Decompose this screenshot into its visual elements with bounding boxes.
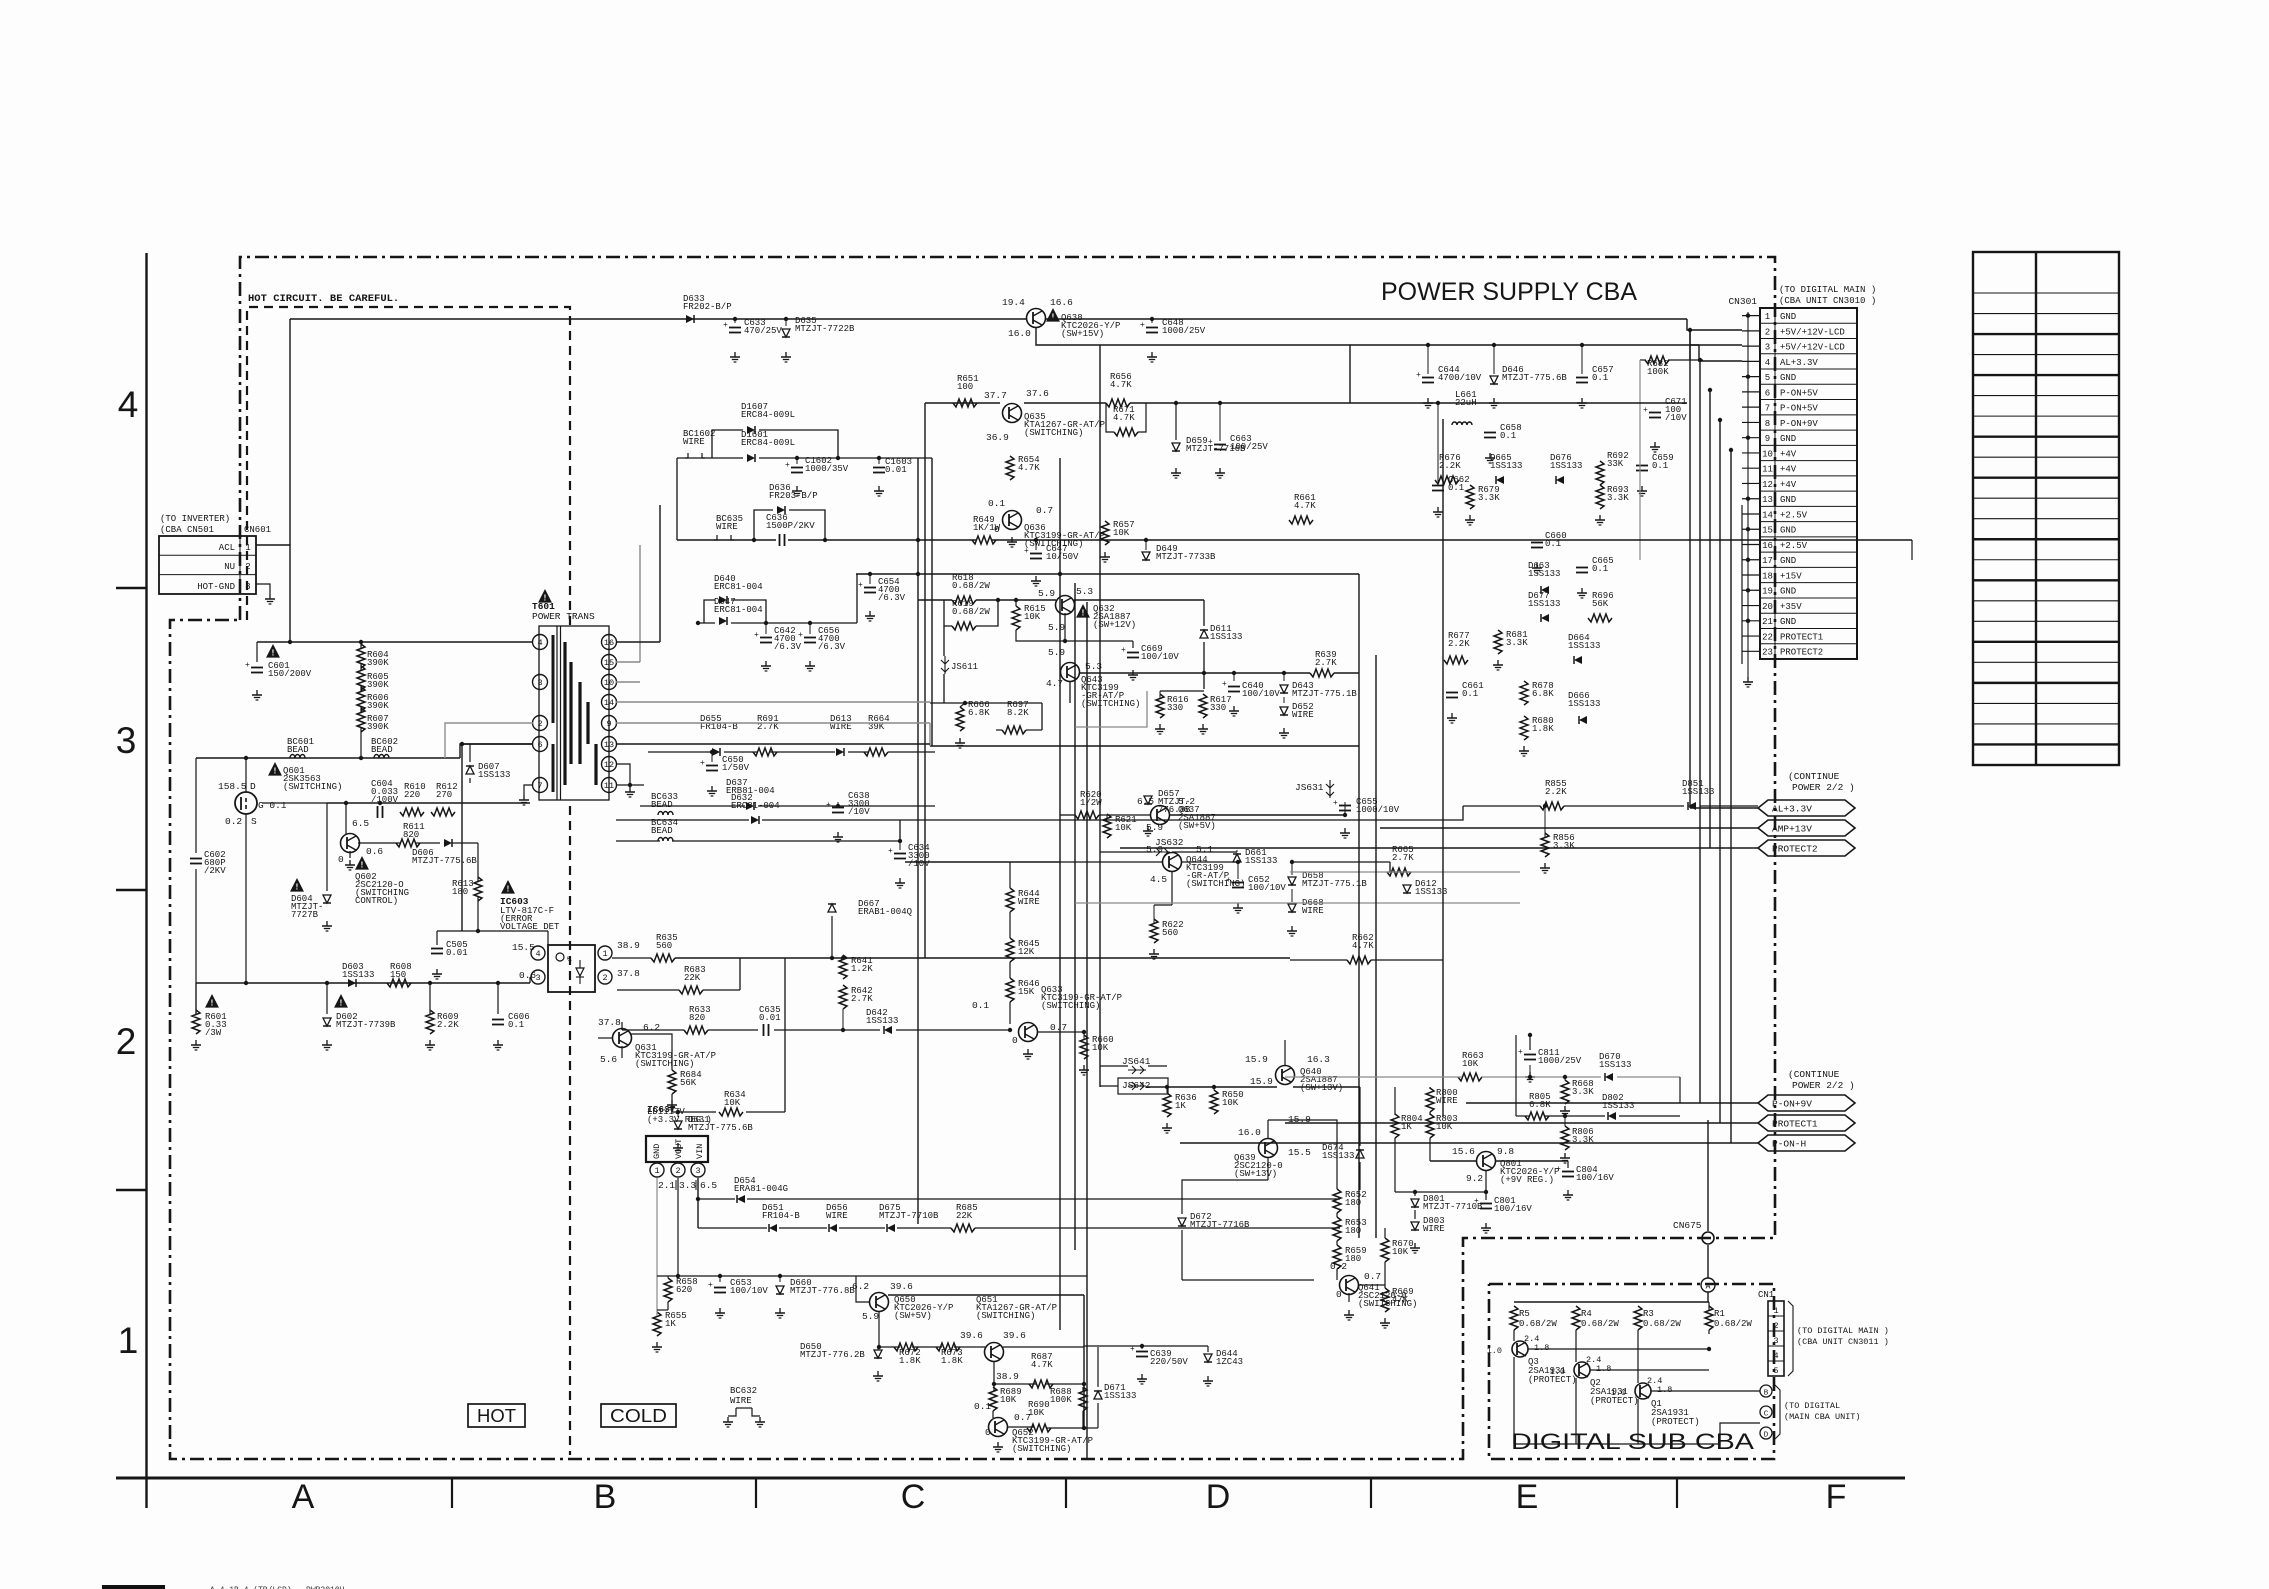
diode D652 <box>1280 707 1288 715</box>
gate drive wire <box>289 545 291 642</box>
svg-text:0.1: 0.1 <box>1652 461 1668 471</box>
wire Q801 row <box>1430 1160 1477 1162</box>
svg-text:3: 3 <box>116 720 137 761</box>
connector C <box>1760 1406 1772 1418</box>
svg-text:+: + <box>1518 1048 1523 1057</box>
svg-text:(SWITCHING): (SWITCHING) <box>1012 1444 1071 1454</box>
svg-text:+4V: +4V <box>1780 480 1797 490</box>
CN301 ground <box>1747 312 1749 677</box>
svg-text:+: + <box>1024 547 1029 556</box>
svg-text:+: + <box>798 631 803 640</box>
svg-text:8.2K: 8.2K <box>1007 708 1029 718</box>
svg-text:0.6: 0.6 <box>366 846 383 857</box>
wire x1285 vertical Q640 <box>1284 1040 1286 1065</box>
svg-text:3: 3 <box>535 973 540 983</box>
svg-text:5.9: 5.9 <box>1038 588 1055 599</box>
svg-text:D: D <box>1764 1432 1769 1440</box>
svg-text:37.6: 37.6 <box>1026 388 1049 399</box>
capacitor C642 <box>760 637 772 639</box>
wire Q641 <box>1358 1284 1385 1286</box>
capacitor C804 <box>1562 1171 1574 1173</box>
wire R662 row <box>1290 959 1347 961</box>
CN301 gnd dots <box>1746 313 1750 317</box>
diode D503 <box>348 979 356 987</box>
svg-text:39.6: 39.6 <box>960 1330 983 1341</box>
svg-text:1SS133: 1SS133 <box>1568 641 1600 651</box>
wire flag AL+3.3V feed <box>900 806 1463 820</box>
svg-text:PROTECT1: PROTECT1 <box>1772 1118 1818 1129</box>
svg-text:COLD: COLD <box>610 1406 667 1426</box>
svg-text:12K: 12K <box>1018 947 1035 957</box>
wire CN601 pin1 to primary <box>256 545 290 642</box>
svg-text:NU: NU <box>224 562 235 572</box>
connector CN301 table <box>1760 308 1857 659</box>
wire y903 gray return <box>1075 902 1520 904</box>
svg-text:1SS133: 1SS133 <box>1245 856 1277 866</box>
svg-text:DIGITAL SUB CBA: DIGITAL SUB CBA <box>1511 1429 1754 1454</box>
transistor Q631 <box>613 1029 632 1048</box>
svg-text:100/10V: 100/10V <box>730 1286 768 1296</box>
wire R644 column x1010 <box>1009 888 1011 891</box>
capacitor C602 <box>190 858 202 860</box>
diode D801 <box>1411 1199 1419 1207</box>
svg-text:(CBA UNIT CN3011 ): (CBA UNIT CN3011 ) <box>1797 1337 1889 1347</box>
svg-text:+: + <box>1222 680 1227 689</box>
svg-text:4: 4 <box>1773 1351 1778 1361</box>
svg-text:1SS133: 1SS133 <box>1528 569 1560 579</box>
svg-text:2.2K: 2.2K <box>1545 787 1567 797</box>
svg-text:2.2K: 2.2K <box>1448 639 1470 649</box>
svg-text:7727B: 7727B <box>291 910 319 920</box>
resistor R5 <box>1510 1306 1518 1330</box>
svg-text:A: A <box>1706 1283 1711 1292</box>
capacitor C644 <box>1422 377 1434 379</box>
diode D672 <box>1178 1218 1186 1226</box>
svg-text:(+9V REG.): (+9V REG.) <box>1500 1175 1554 1185</box>
wire CN675 column <box>1707 1120 1709 1231</box>
svg-text:BEAD: BEAD <box>651 826 673 836</box>
svg-text:22: 22 <box>1762 632 1773 642</box>
svg-text:ERA81-004G: ERA81-004G <box>734 1184 788 1194</box>
vertical x1084 <box>1083 1295 1085 1428</box>
wire Q652 row <box>1007 1426 1034 1428</box>
svg-text:270: 270 <box>436 790 452 800</box>
svg-text:1.8K: 1.8K <box>899 1356 921 1366</box>
svg-text:P-ON-H: P-ON-H <box>1772 1138 1806 1149</box>
svg-text:0.01: 0.01 <box>885 465 907 475</box>
svg-text:(SW+13V): (SW+13V) <box>1300 1083 1343 1093</box>
CN301 pin stubs <box>1742 315 1760 317</box>
diode D660 <box>776 1286 784 1294</box>
svg-text:R5: R5 <box>1519 1309 1530 1319</box>
connector D <box>1760 1427 1772 1439</box>
svg-text:+: + <box>1121 646 1126 655</box>
svg-text:4.7K: 4.7K <box>1294 501 1316 511</box>
svg-text:330: 330 <box>1210 703 1226 713</box>
wire y1347 row <box>879 1346 900 1348</box>
diode D602 <box>334 994 348 1008</box>
svg-text:1: 1 <box>118 1320 139 1361</box>
wire R663 row y1077 <box>1285 1076 1462 1078</box>
svg-text:820: 820 <box>689 1013 705 1023</box>
svg-text:36.9: 36.9 <box>986 432 1009 443</box>
svg-text:(CONTINUE: (CONTINUE <box>1788 771 1840 782</box>
svg-text:2: 2 <box>675 1166 680 1176</box>
wire Q637 row y815 <box>1060 814 1075 816</box>
wire x1620 vertical <box>1619 806 1621 1058</box>
svg-text:37.7: 37.7 <box>984 390 1007 401</box>
harness joins <box>1690 807 1758 809</box>
svg-text:WIRE: WIRE <box>1292 710 1314 720</box>
svg-text:(PROTECT): (PROTECT) <box>1651 1417 1700 1427</box>
svg-text:820: 820 <box>403 830 419 840</box>
svg-text:0.1: 0.1 <box>1500 431 1516 441</box>
svg-text:WIRE: WIRE <box>730 1396 752 1406</box>
wire Q638 base riser <box>1036 328 1350 403</box>
transistor Q2 <box>1574 1362 1590 1378</box>
svg-text:1.8K: 1.8K <box>1532 724 1554 734</box>
svg-text:MTZJT-775.1B: MTZJT-775.1B <box>1292 689 1357 699</box>
svg-text:JS641: JS641 <box>1122 1056 1151 1067</box>
capacitor C655 <box>1339 805 1351 807</box>
svg-text:(SWITCHING): (SWITCHING) <box>976 1311 1035 1321</box>
svg-text:390K: 390K <box>367 722 389 732</box>
wire flag AMP+13V <box>1380 827 1758 829</box>
capacitor C663 <box>1214 444 1226 446</box>
svg-text:+: + <box>1140 321 1145 330</box>
svg-text:(TO INVERTER): (TO INVERTER) <box>160 514 230 524</box>
svg-text:GND: GND <box>1780 373 1796 383</box>
svg-text:6.5: 6.5 <box>352 818 369 829</box>
svg-text:5.3: 5.3 <box>1076 586 1093 597</box>
diode D607 <box>466 766 474 774</box>
long vertical x1075 <box>1074 583 1076 1250</box>
svg-text:(SWITCHING): (SWITCHING) <box>635 1059 694 1069</box>
svg-text:470/25V: 470/25V <box>744 326 782 336</box>
svg-text:5.9: 5.9 <box>862 1311 879 1322</box>
svg-text:+: + <box>1416 371 1421 380</box>
svg-text:0.68/2W: 0.68/2W <box>1519 1319 1557 1329</box>
transistor Q650 <box>870 1293 889 1312</box>
svg-text:100/16V: 100/16V <box>1494 1204 1532 1214</box>
svg-text:↯: ↯ <box>566 956 573 965</box>
svg-text:1K/1W: 1K/1W <box>973 523 1001 533</box>
svg-text:16.0: 16.0 <box>1238 1127 1261 1138</box>
svg-text:1SS133: 1SS133 <box>1210 632 1242 642</box>
svg-text:GND: GND <box>652 1144 662 1159</box>
wire y862 rail <box>905 861 1060 863</box>
svg-text:2: 2 <box>116 1021 137 1062</box>
svg-text:MTZJT-775.6B: MTZJT-775.6B <box>412 856 477 866</box>
svg-text:17: 17 <box>1762 556 1773 566</box>
svg-text:6.5: 6.5 <box>700 1180 717 1191</box>
svg-text:2: 2 <box>1773 1321 1778 1331</box>
svg-text:3: 3 <box>695 1166 700 1176</box>
svg-text:C: C <box>901 1478 926 1516</box>
wire D651 row y1228 <box>698 1227 767 1229</box>
svg-text:S: S <box>251 816 257 827</box>
svg-text:0.1: 0.1 <box>974 1401 991 1412</box>
long vertical x1100 <box>1099 345 1101 1087</box>
svg-text:1.8K: 1.8K <box>941 1356 963 1366</box>
diode D668 <box>1288 904 1296 912</box>
svg-text:10K: 10K <box>1028 1408 1045 1418</box>
resistor R3 <box>1634 1306 1642 1330</box>
svg-text:CN301: CN301 <box>1728 296 1757 307</box>
svg-text:AL+3.3V: AL+3.3V <box>1780 358 1818 368</box>
svg-text:MTZJT-7733B: MTZJT-7733B <box>1156 552 1216 562</box>
wire R800 R803 column <box>1429 1087 1431 1089</box>
svg-text:15.5: 15.5 <box>512 942 535 953</box>
svg-text:1: 1 <box>1765 312 1770 322</box>
wire pin2-3 feed <box>1687 319 1742 330</box>
svg-text:1SS133: 1SS133 <box>1528 599 1560 609</box>
svg-text:(SW+15V): (SW+15V) <box>1061 329 1104 339</box>
wire D674 column <box>1359 1138 1361 1146</box>
wire pin9 gray <box>616 722 930 724</box>
svg-text:1000/25V: 1000/25V <box>1162 326 1206 336</box>
svg-text:MTZJT-775.6B: MTZJT-775.6B <box>1502 373 1567 383</box>
svg-text:1SS133: 1SS133 <box>866 1016 898 1026</box>
svg-text:6.8K: 6.8K <box>968 708 990 718</box>
wire y574 rail <box>856 573 1359 575</box>
svg-text:+: + <box>1556 1165 1561 1174</box>
svg-text:9: 9 <box>1765 434 1770 444</box>
long vertical x1087 <box>1086 602 1088 1460</box>
wire pin10 <box>616 681 640 683</box>
wire Q631 <box>621 1022 623 1030</box>
svg-text:+: + <box>1643 406 1648 415</box>
svg-text:0.68/2W: 0.68/2W <box>1643 1319 1681 1329</box>
svg-text:1.8: 1.8 <box>1534 1343 1549 1353</box>
wire JS641 row <box>1100 1065 1128 1067</box>
svg-text:MTZJT-7710B: MTZJT-7710B <box>879 1211 939 1221</box>
transistor Q801 <box>1477 1152 1496 1171</box>
wire CN675 to A <box>1707 1245 1709 1278</box>
svg-text:ERC81-004: ERC81-004 <box>714 605 763 615</box>
svg-text:+: + <box>245 661 250 670</box>
gray wire pin15 <box>616 661 640 663</box>
svg-text:(TO DIGITAL: (TO DIGITAL <box>1784 1401 1840 1411</box>
wire pin14 <box>616 701 930 703</box>
wire x1463 vertical <box>1462 806 1464 1103</box>
svg-text:0.7: 0.7 <box>1050 1022 1067 1033</box>
svg-text:15.5: 15.5 <box>1288 1147 1311 1158</box>
svg-text:15.9: 15.9 <box>1250 1076 1273 1087</box>
svg-text:0.1: 0.1 <box>1592 373 1608 383</box>
svg-text:0.7: 0.7 <box>1364 1271 1381 1282</box>
svg-text:0.68/2W: 0.68/2W <box>1714 1319 1752 1329</box>
svg-text:0.1: 0.1 <box>972 1000 989 1011</box>
resistor R601 <box>205 994 219 1008</box>
wire y345 rail to pin4 <box>1350 344 1699 346</box>
net flag AMP+13V <box>1758 820 1855 836</box>
svg-text:4.5: 4.5 <box>1150 874 1167 885</box>
svg-text:FR104-B: FR104-B <box>762 1211 800 1221</box>
svg-text:10: 10 <box>1762 449 1773 459</box>
svg-text:1.0: 1.0 <box>1487 1346 1502 1356</box>
opto IC603 <box>501 880 515 894</box>
svg-text:7: 7 <box>537 781 542 791</box>
wire y403 rail <box>925 402 1000 404</box>
wire JS632 row <box>1100 851 1152 853</box>
svg-text:R3: R3 <box>1643 1309 1654 1319</box>
resistor R606 <box>357 687 365 711</box>
capacitor C640 <box>1228 686 1240 688</box>
svg-text:33K: 33K <box>1607 459 1624 469</box>
capacitor C652 <box>1232 882 1244 884</box>
svg-text:+35V: +35V <box>1780 602 1802 612</box>
wire y703 box <box>930 702 1042 704</box>
svg-text:15.6: 15.6 <box>1452 1146 1475 1157</box>
svg-text:MTZJT-775.1B: MTZJT-775.1B <box>1302 879 1367 889</box>
transformer pin11-12 ground <box>616 764 630 785</box>
wire flag PROTECT1 feed <box>1285 1122 1720 1124</box>
svg-text:3: 3 <box>537 678 542 688</box>
svg-text:WIRE: WIRE <box>826 1211 848 1221</box>
wire D611 column <box>1203 642 1205 689</box>
svg-text:/10V: /10V <box>1665 413 1687 423</box>
svg-text:1: 1 <box>602 949 607 959</box>
transistor Q641 <box>1340 1276 1359 1295</box>
svg-text:0: 0 <box>1012 1035 1018 1046</box>
wire D636 loop <box>754 510 773 540</box>
transformer T601 warning <box>538 589 552 603</box>
svg-text:1SS133: 1SS133 <box>1490 461 1522 471</box>
svg-text:100K: 100K <box>1050 1395 1072 1405</box>
svg-text:100/25V: 100/25V <box>1230 442 1268 452</box>
svg-text:14: 14 <box>604 698 614 708</box>
svg-text:POWER 2/2 ): POWER 2/2 ) <box>1792 782 1855 793</box>
svg-text:8: 8 <box>1765 419 1770 429</box>
svg-text:1: 1 <box>245 543 250 553</box>
svg-text:3: 3 <box>1765 343 1770 353</box>
diode D667 <box>828 904 836 912</box>
svg-text:+: + <box>1474 1197 1479 1206</box>
wire flag PROTECT2 <box>1120 847 1758 849</box>
svg-text:10K: 10K <box>1024 612 1041 622</box>
svg-text:10K: 10K <box>1000 1395 1017 1405</box>
svg-text:23: 23 <box>1762 648 1773 658</box>
svg-text:16: 16 <box>604 638 614 648</box>
svg-text:100/10V: 100/10V <box>1248 883 1286 893</box>
wire pin13 row <box>616 743 930 745</box>
diode D649 <box>1142 552 1150 560</box>
transistor Q639 <box>1259 1139 1278 1158</box>
svg-text:2.7K: 2.7K <box>851 994 873 1004</box>
svg-text:1.0: 1.0 <box>1550 1367 1565 1377</box>
svg-text:0: 0 <box>1336 1289 1342 1300</box>
transistor Q637 <box>1151 806 1170 825</box>
svg-text:+: + <box>1226 876 1231 885</box>
wire pin12 stub <box>616 763 630 765</box>
wire right verticals x1359 x1376 <box>1358 574 1360 1238</box>
digital sub wires <box>1513 1330 1515 1341</box>
svg-text:22K: 22K <box>956 1211 973 1221</box>
svg-text:2.7K: 2.7K <box>1315 658 1337 668</box>
wire BC633 BC634 row <box>616 819 749 821</box>
svg-text:B: B <box>1764 1390 1769 1398</box>
svg-text:(SWITCHING): (SWITCHING) <box>283 782 342 792</box>
wire vertical x925 <box>924 403 926 958</box>
svg-text:56K: 56K <box>680 1078 697 1088</box>
wire Q650 row <box>888 1294 1084 1296</box>
svg-text:19: 19 <box>1762 587 1773 597</box>
svg-text:4: 4 <box>535 949 540 959</box>
connector CN601 table <box>159 536 256 594</box>
svg-text:10K: 10K <box>1115 823 1132 833</box>
svg-text:POWER 2/2 ): POWER 2/2 ) <box>1792 1080 1855 1091</box>
resistor R604 <box>357 644 365 668</box>
svg-text:10K: 10K <box>1462 1059 1479 1069</box>
svg-text:(CBA UNIT CN3010 ): (CBA UNIT CN3010 ) <box>1779 296 1876 306</box>
wire top rail y319 <box>290 318 1026 320</box>
svg-text:!: ! <box>340 999 343 1008</box>
svg-text:/6.3V: /6.3V <box>878 593 906 603</box>
svg-text:+: + <box>858 581 863 590</box>
svg-text:13: 13 <box>604 740 614 750</box>
svg-text:1SS133: 1SS133 <box>1599 1060 1631 1070</box>
svg-text:6.8K: 6.8K <box>1532 689 1554 699</box>
svg-text:1SS133: 1SS133 <box>1550 461 1582 471</box>
svg-text:1SS133: 1SS133 <box>1568 699 1600 709</box>
svg-text:CN675: CN675 <box>1673 1220 1702 1231</box>
svg-text:390K: 390K <box>367 658 389 668</box>
svg-text:3.3K: 3.3K <box>1607 493 1629 503</box>
diode D659 <box>1172 443 1180 451</box>
capacitor C654 <box>864 587 876 589</box>
resistor R607 <box>357 708 365 732</box>
svg-text:10K: 10K <box>1113 528 1130 538</box>
svg-text:0.68/2W: 0.68/2W <box>952 581 990 591</box>
svg-text:GND: GND <box>1780 617 1796 627</box>
capacitor C669 <box>1127 652 1139 654</box>
svg-text:/10V: /10V <box>848 807 870 817</box>
svg-text:JS631: JS631 <box>1295 782 1324 793</box>
wire C639 D644 row <box>1084 1345 1208 1347</box>
transistor Q643 <box>1061 663 1080 682</box>
svg-text:2: 2 <box>602 973 607 983</box>
net flag P-ON-H <box>1758 1135 1855 1151</box>
svg-text:3.3: 3.3 <box>679 1180 696 1191</box>
svg-text:9.2: 9.2 <box>1466 1173 1483 1184</box>
svg-text:390K: 390K <box>367 680 389 690</box>
svg-text:10K: 10K <box>1222 1098 1239 1108</box>
net flag AL+3.3V <box>1758 800 1855 816</box>
svg-text:38.9: 38.9 <box>617 940 640 951</box>
svg-text:(SWITCHING): (SWITCHING) <box>1081 699 1140 709</box>
capacitor C647 <box>1030 553 1042 555</box>
svg-text:100: 100 <box>957 382 973 392</box>
svg-text:B: B <box>594 1478 617 1516</box>
svg-text:6: 6 <box>537 740 542 750</box>
svg-text:9: 9 <box>606 719 611 729</box>
svg-text:(MAIN CBA UNIT): (MAIN CBA UNIT) <box>1784 1412 1861 1422</box>
transistor Q632 <box>1056 596 1075 615</box>
svg-text:220: 220 <box>404 790 420 800</box>
svg-text:150/200V: 150/200V <box>268 669 312 679</box>
svg-text:4: 4 <box>118 384 139 425</box>
svg-text:2.7K: 2.7K <box>1392 853 1414 863</box>
wire Q639 column <box>1267 1120 1269 1138</box>
svg-text:+: + <box>1333 799 1338 808</box>
svg-text:5.9: 5.9 <box>1146 822 1163 833</box>
svg-text:MTZJT-7722B: MTZJT-7722B <box>795 324 855 334</box>
svg-text:12: 12 <box>1762 480 1773 490</box>
wire Q644 row y862 <box>1060 861 1162 863</box>
svg-text:WIRE: WIRE <box>1302 906 1324 916</box>
svg-text:VIN: VIN <box>695 1144 705 1159</box>
